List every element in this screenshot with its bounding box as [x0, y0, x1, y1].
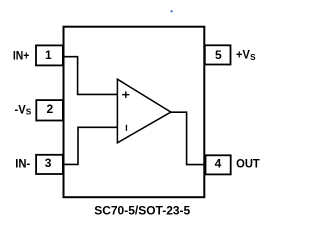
svg-text:IN+: IN+ [13, 48, 30, 62]
svg-text:IN-: IN- [15, 156, 30, 170]
svg-text:+V: +V [236, 48, 250, 62]
svg-text:4: 4 [215, 157, 222, 171]
svg-text:2: 2 [47, 102, 54, 116]
svg-text:5: 5 [215, 48, 222, 62]
svg-text:OUT: OUT [236, 156, 260, 170]
svg-text:1: 1 [45, 48, 52, 62]
svg-text:S: S [250, 53, 256, 62]
svg-text:3: 3 [45, 156, 52, 170]
svg-text:-V: -V [15, 102, 26, 116]
svg-text:SC70-5/SOT-23-5: SC70-5/SOT-23-5 [94, 204, 190, 218]
svg-text:S: S [26, 108, 32, 117]
